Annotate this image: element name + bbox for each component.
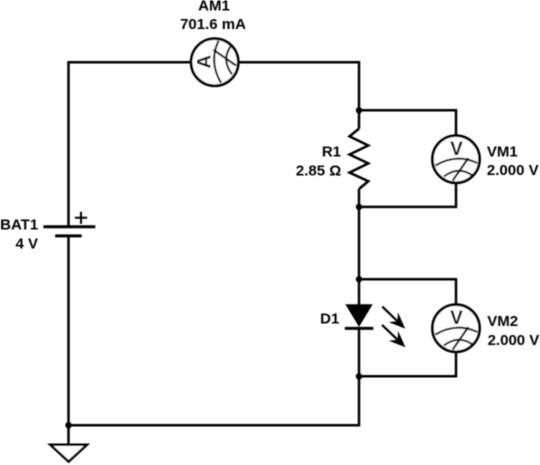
- node junction dot at D1 top: [356, 276, 362, 282]
- svg-text:BAT1: BAT1: [0, 217, 38, 234]
- wire VM1 branch: [359, 110, 456, 207]
- ammeter AM1: [191, 39, 238, 86]
- svg-text:4 V: 4 V: [15, 236, 38, 253]
- wire bottom: [69, 328, 360, 425]
- wire between resistor and LED: [358, 189, 361, 305]
- svg-text:2.85 Ω: 2.85 Ω: [296, 163, 341, 180]
- node junction dot at R1 top: [356, 107, 362, 113]
- svg-text:D1: D1: [320, 311, 339, 328]
- diode D1 cathode bar: [345, 327, 374, 330]
- ground: [50, 445, 87, 462]
- svg-text:V: V: [450, 139, 463, 160]
- node junction dot at D1 bottom: [356, 373, 362, 379]
- voltmeter VM2: [432, 305, 479, 352]
- LED arrow 1: [382, 307, 405, 329]
- svg-text:R1: R1: [322, 143, 341, 160]
- svg-text:AM1: AM1: [198, 0, 230, 15]
- wire left lower + ground stub: [67, 236, 70, 445]
- svg-text:2.000 V: 2.000 V: [488, 332, 540, 349]
- wire top-left loop: left wire upper + top wire + right wire to resistor: [69, 62, 360, 227]
- svg-text:2.000 V: 2.000 V: [487, 162, 539, 179]
- svg-text:A: A: [195, 55, 216, 69]
- node junction dot at R1 bottom: [356, 204, 362, 210]
- node junction dot at ground: [65, 422, 71, 428]
- svg-text:VM2: VM2: [487, 313, 518, 330]
- resistor R1: [350, 129, 369, 189]
- diode D1 triangle: [346, 305, 372, 326]
- LED arrow 2: [382, 325, 405, 347]
- svg-text:V: V: [450, 308, 463, 329]
- svg-text:VM1: VM1: [487, 143, 518, 160]
- svg-text:701.6 mA: 701.6 mA: [180, 16, 246, 33]
- battery plus sign: [75, 212, 87, 224]
- battery BAT1 plates: [43, 227, 95, 236]
- voltmeter VM1: [432, 136, 479, 183]
- wire VM2 branch: [359, 279, 456, 376]
